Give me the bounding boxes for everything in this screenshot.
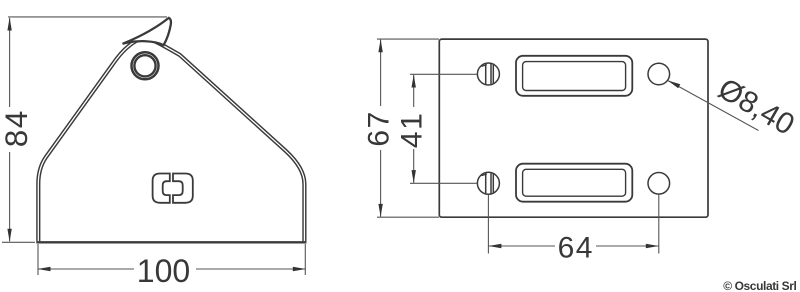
hole ring: [132, 52, 159, 79]
screw bottom: [477, 172, 499, 194]
right view: plate outline: [439, 39, 708, 217]
dimension 100: arrows: [38, 267, 51, 271]
leader arrow: [668, 81, 681, 89]
bottom-right hole: [648, 173, 670, 195]
svg-text:84: 84: [0, 109, 34, 147]
part outline double line: [38, 39, 304, 241]
svg-text:41: 41: [395, 112, 428, 148]
left view: side profile of bracket: [36, 18, 306, 242]
screw top: [477, 63, 499, 85]
dimension 100: extension and dimension lines: [38, 244, 306, 275]
dimension 41: extension and dimension lines: [410, 74, 477, 183]
base line: [36, 241, 306, 243]
dimension 67: arrows: [378, 39, 382, 52]
dimension 84: arrows: [7, 18, 11, 31]
dimension 41: arrows: [412, 75, 416, 88]
slot top: [516, 56, 632, 96]
slot bottom: [516, 164, 632, 202]
leader line to top-right hole: [668, 81, 759, 131]
dimension 64: arrows: [488, 244, 501, 248]
fin (folded tab): [123, 18, 171, 45]
top-right hole: [648, 63, 670, 85]
dimension 64: extension and dimension lines: [488, 195, 658, 254]
svg-text:64: 64: [558, 232, 594, 265]
svg-text:Ø8,40: Ø8,40: [713, 72, 800, 141]
svg-text:© Osculati Srl: © Osculati Srl: [723, 279, 796, 292]
dimension 84: extension and dimension lines: [2, 17, 167, 242]
center slot (double C): [153, 174, 193, 203]
dimension 67: extension and dimension lines: [377, 39, 439, 217]
svg-text:67: 67: [363, 110, 396, 146]
svg-text:100: 100: [137, 253, 190, 289]
